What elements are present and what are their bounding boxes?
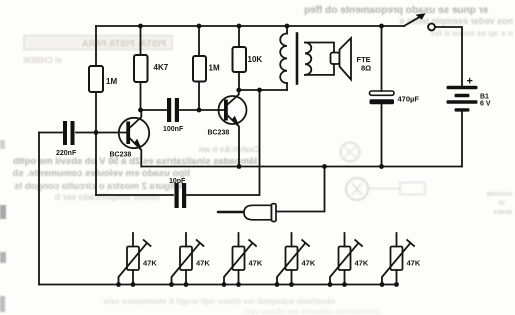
svg-text:escena: escena [486, 189, 512, 198]
svg-text:etnemumos seluolev me obasu o: etnemumos seluolev me obasu opit [244, 307, 380, 315]
svg-text:st CHBEM: st CHBEM [23, 56, 62, 65]
svg-text:10K: 10K [248, 55, 263, 64]
svg-text:220nF: 220nF [56, 150, 77, 157]
svg-text:1M: 1M [209, 64, 220, 73]
svg-text:100nF: 100nF [163, 126, 184, 133]
svg-text:+: + [467, 76, 473, 88]
svg-text:dende simplificado ser b: dende simplificado ser b [54, 192, 160, 202]
svg-text:47K: 47K [143, 259, 157, 268]
svg-text:Caahiri:&o b am: Caahiri:&o b am [199, 145, 260, 154]
svg-text:arors: arors [493, 207, 512, 216]
svg-text:PISTA- PISTA PARA: PISTA- PISTA PARA [81, 39, 166, 49]
svg-text:4K7: 4K7 [154, 63, 169, 72]
svg-text:n e ap se temai d fez: n e ap se temai d fez [430, 28, 513, 38]
svg-text:47K: 47K [249, 259, 263, 268]
svg-text:ol: ol [498, 198, 505, 207]
svg-text:B1: B1 [480, 94, 489, 101]
svg-text:er qnue se usado preqoamente: er qnue se usado preqoamente ob ffeq [304, 5, 488, 16]
svg-text:BC238: BC238 [208, 130, 230, 137]
svg-text:6 V: 6 V [480, 101, 491, 108]
svg-text:obszilsnie asbsqmâl me obseu: obszilsnie asbsqmâl me obseu oqit srugit… [103, 297, 335, 306]
svg-text:10pF: 10pF [169, 178, 186, 185]
svg-text:470µF: 470µF [398, 95, 420, 104]
svg-text:47K: 47K [355, 259, 369, 268]
svg-text:A figura 2 mostra o circuito: A figura 2 mostra o circuito congob ls [14, 181, 185, 192]
svg-text:47K: 47K [196, 259, 210, 268]
svg-text:47K: 47K [407, 259, 421, 268]
svg-text:lâmpadas sinalizatrisa es 2b a: lâmpadas sinalizatrisa es 2b a 50 V ob s… [13, 156, 257, 167]
svg-text:nos vedar exemplo tento s: nos vedar exemplo tento s [399, 16, 513, 26]
svg-text:BC238: BC238 [110, 152, 132, 159]
svg-text:47K: 47K [302, 259, 316, 268]
svg-text:1M: 1M [106, 77, 117, 86]
svg-text:8Ω: 8Ω [361, 64, 371, 73]
